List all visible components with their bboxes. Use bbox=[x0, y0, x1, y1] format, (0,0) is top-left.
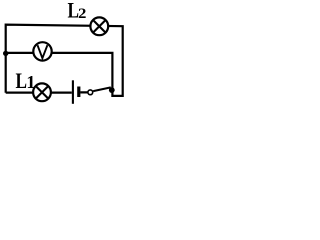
svg-text:L: L bbox=[16, 68, 28, 93]
svg-text:2: 2 bbox=[78, 6, 86, 22]
svg-text:1: 1 bbox=[26, 72, 35, 92]
